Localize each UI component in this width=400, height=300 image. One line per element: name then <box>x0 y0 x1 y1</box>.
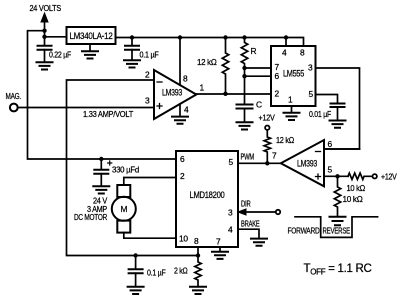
timer U3 LM555 <box>271 46 316 106</box>
svg-text:M: M <box>120 204 127 214</box>
junction divider <box>335 174 339 178</box>
24V supply arrow <box>41 13 48 22</box>
svg-text:8: 8 <box>300 48 305 58</box>
ground under sense 0.1uF <box>128 287 144 294</box>
svg-text:10: 10 <box>179 234 188 244</box>
svg-text:2: 2 <box>180 171 185 181</box>
wire pin2 feedback rail <box>67 80 199 256</box>
svg-text:MAG.: MAG. <box>6 91 22 101</box>
wire 24V to regulator input <box>45 36 67 38</box>
svg-text:3: 3 <box>145 96 150 106</box>
svg-text:1: 1 <box>288 95 293 105</box>
wire to 555 pin 7 <box>245 67 272 69</box>
svg-text:2 kΩ: 2 kΩ <box>174 266 188 276</box>
resistor R <box>242 35 246 39</box>
svg-text:0.1 µF: 0.1 µF <box>147 268 166 278</box>
wire DIR <box>245 211 276 213</box>
capacitor 330uFd polarized <box>100 159 102 170</box>
svg-text:C: C <box>256 100 262 110</box>
svg-text:330 µFd: 330 µFd <box>112 165 140 175</box>
svg-text:7: 7 <box>216 237 221 247</box>
wire opamp output to 555 trigger <box>196 93 271 95</box>
svg-text:FORWARD: FORWARD <box>288 226 320 236</box>
capacitor C <box>237 105 253 109</box>
svg-text:6: 6 <box>180 154 185 164</box>
svg-text:6: 6 <box>328 139 333 149</box>
svg-text:12 kΩ: 12 kΩ <box>276 135 294 145</box>
capacitor 0.22uF <box>38 46 52 50</box>
wire 24V vertical <box>44 22 46 46</box>
node +12V divider <box>373 174 377 178</box>
svg-text:0.22 µF: 0.22 µF <box>49 50 71 60</box>
ground under op-amp U2 <box>172 117 188 124</box>
svg-text:10 kΩ: 10 kΩ <box>347 183 366 193</box>
svg-text:LMD18200: LMD18200 <box>190 190 225 200</box>
svg-text:LM340LA-12: LM340LA-12 <box>70 31 113 41</box>
junction sense node <box>196 253 200 257</box>
wire 555 out to comparator <box>316 68 360 149</box>
svg-text:+12V: +12V <box>381 172 397 182</box>
svg-text:0.1 µF: 0.1 µF <box>140 50 159 60</box>
op-amp U2 LM393 <box>154 70 196 119</box>
junction 0.1uF sense <box>133 253 137 257</box>
ground under C <box>237 122 253 129</box>
svg-text:R: R <box>251 46 257 56</box>
junction 330uF <box>99 157 103 161</box>
wire pin5 to divider <box>324 175 348 177</box>
resistor 12k pullup <box>223 35 227 39</box>
resistor 2k <box>195 256 201 287</box>
ground under 0.01uF <box>330 121 346 128</box>
junction 0.1uF <box>130 35 134 39</box>
motor M1 <box>112 197 136 221</box>
wire motor top to pin 2 <box>124 178 176 186</box>
svg-text:LM555: LM555 <box>283 69 304 79</box>
ground under 0.22uF <box>37 62 53 69</box>
svg-text:8: 8 <box>194 236 199 246</box>
resistor 12k comparator pullup <box>264 130 270 163</box>
svg-text:DC MOTOR: DC MOTOR <box>74 212 107 222</box>
waveform FORWARD/REVERSE <box>295 217 378 238</box>
node DIR terminal <box>276 210 280 214</box>
wire pin6 input <box>324 148 360 150</box>
ground 555 pin 1 <box>291 106 293 113</box>
svg-text:10 kΩ: 10 kΩ <box>343 194 363 204</box>
wire to 555 pin 6 <box>245 75 272 77</box>
svg-text:BRAKE: BRAKE <box>241 219 260 229</box>
junction 12k pullup <box>223 92 227 96</box>
resistor 10k to ground <box>334 176 340 216</box>
svg-text:6: 6 <box>275 71 280 81</box>
svg-text:7: 7 <box>272 151 277 161</box>
svg-text:4: 4 <box>184 105 189 115</box>
svg-text:12 kΩ: 12 kΩ <box>197 57 217 67</box>
svg-text:PWM: PWM <box>241 152 255 162</box>
ground under 330uF <box>93 186 109 193</box>
wire comparator output PWM <box>238 162 281 164</box>
op-amp U4 LM393 <box>281 140 324 186</box>
svg-text:4: 4 <box>228 225 233 235</box>
capacitor 0.1uF sense <box>135 256 137 270</box>
wire 12V rail <box>116 38 304 47</box>
junction R to pin6 <box>242 74 246 78</box>
motor driver U5 LMD18200 <box>176 151 238 247</box>
svg-text:1: 1 <box>200 83 205 93</box>
ground under 2k <box>190 287 206 294</box>
svg-text:LM393: LM393 <box>297 159 317 169</box>
resistor 10k to +12V <box>348 173 372 179</box>
svg-text:1.33 AMP/VOLT: 1.33 AMP/VOLT <box>83 109 133 119</box>
wire 24V rail to motor supply <box>28 31 177 159</box>
svg-text:5: 5 <box>328 165 333 175</box>
junction pullup PWM <box>265 161 269 165</box>
svg-text:0.01 µF: 0.01 µF <box>309 109 331 119</box>
wire 555 pin5 to cap <box>316 95 338 104</box>
junction R to pin7 <box>242 66 246 70</box>
junction 24V-left-rail <box>42 29 46 33</box>
svg-text:5: 5 <box>229 157 234 167</box>
capacitor 0.01uF <box>331 104 345 108</box>
wire BRAKE to ground <box>238 229 259 238</box>
wire MAG to pin3 <box>18 107 154 109</box>
svg-text:LM393: LM393 <box>162 88 182 98</box>
svg-text:REVERSE: REVERSE <box>323 226 351 236</box>
regulator U1 LM340LA-12 <box>67 27 116 44</box>
svg-text:+12V: +12V <box>259 113 276 123</box>
svg-text:2: 2 <box>145 70 150 80</box>
svg-text:4: 4 <box>282 48 287 58</box>
junction 24V-regulator <box>42 35 46 39</box>
ground BRAKE <box>251 239 267 246</box>
svg-text:3: 3 <box>228 208 233 218</box>
capacitor 0.1uF <box>131 38 133 46</box>
wire motor bottom to pin 10 <box>124 233 176 239</box>
ground under 0.1uF <box>124 60 140 67</box>
ground under 10k <box>330 217 346 225</box>
svg-text:3: 3 <box>308 63 313 73</box>
svg-text:TOFF = 1.1 RC: TOFF = 1.1 RC <box>304 263 372 277</box>
svg-text:2: 2 <box>275 89 280 99</box>
svg-text:5: 5 <box>309 89 314 99</box>
svg-text:8: 8 <box>183 74 188 84</box>
svg-text:DIR: DIR <box>241 199 251 209</box>
svg-text:24 VOLTS: 24 VOLTS <box>30 3 62 13</box>
ground under regulator <box>89 44 91 51</box>
